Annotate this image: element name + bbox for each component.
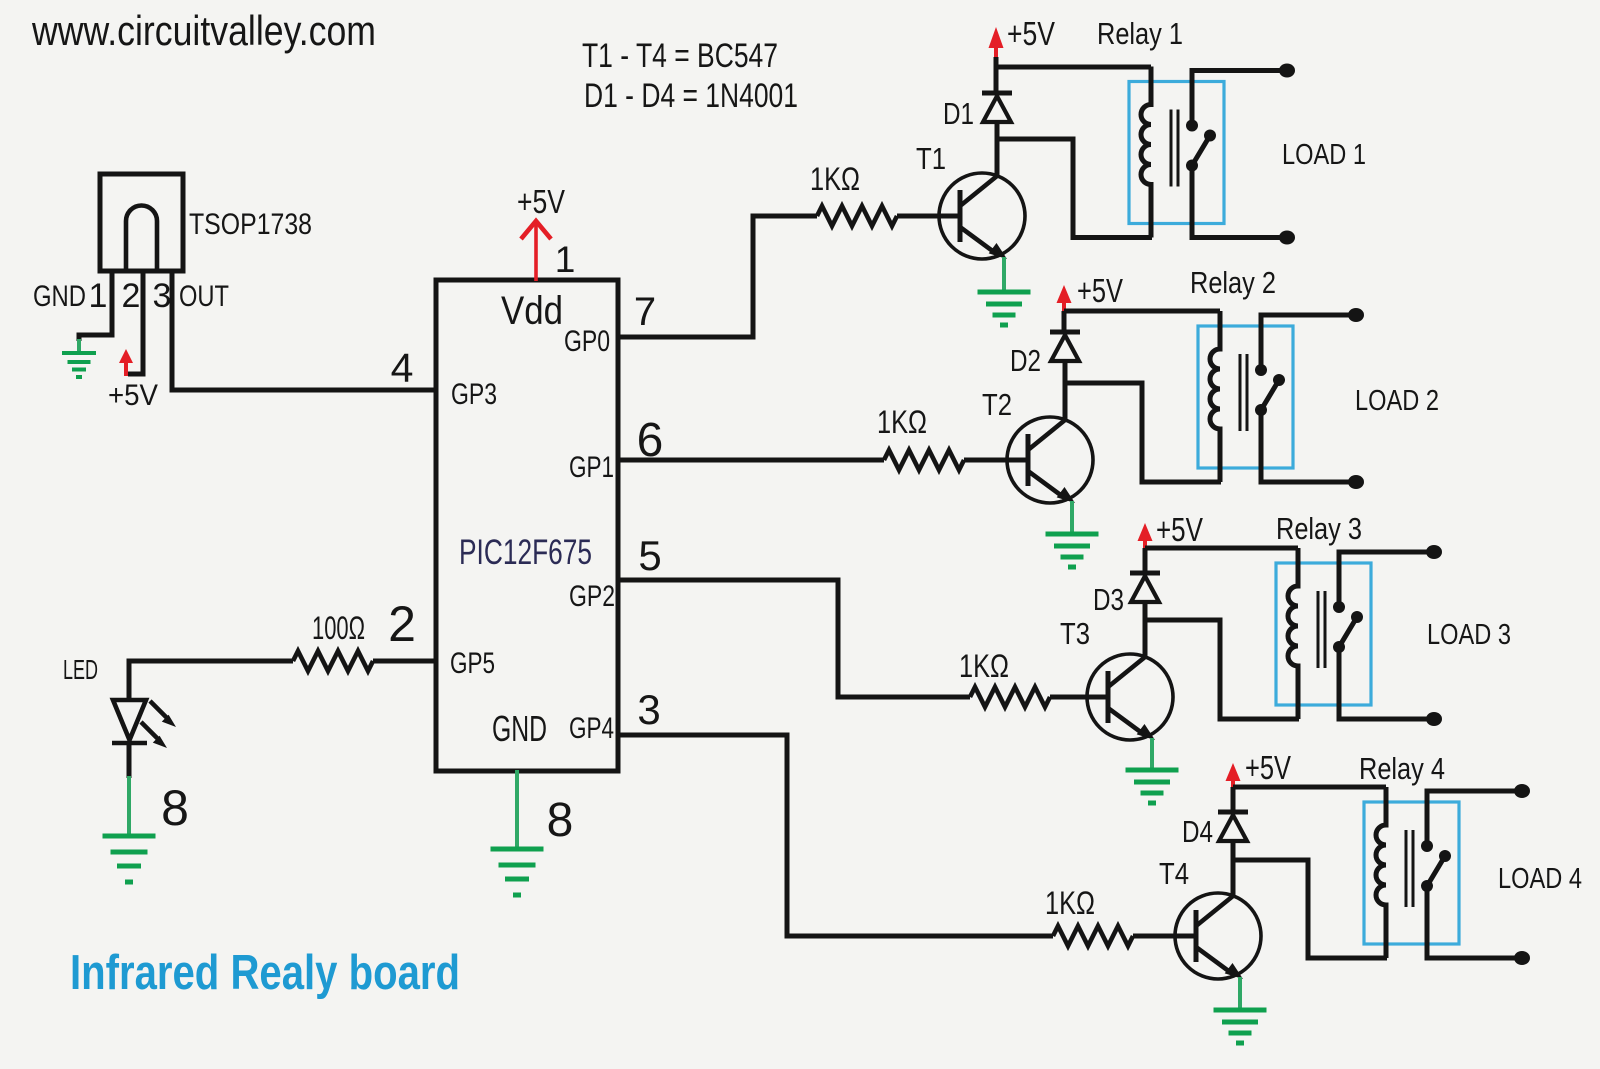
wire collector junction to relay1 coil bottom bbox=[997, 139, 1152, 238]
svg-text:Relay 4: Relay 4 bbox=[1359, 751, 1445, 786]
svg-text:Relay 1: Relay 1 bbox=[1097, 16, 1183, 51]
svg-text:Vdd: Vdd bbox=[501, 289, 563, 333]
svg-text:+5V: +5V bbox=[1007, 15, 1055, 52]
wire GP4 pin3 to resistor bbox=[618, 735, 1053, 936]
svg-text:+5V: +5V bbox=[1156, 511, 1203, 548]
relay Relay4 bbox=[1364, 784, 1530, 965]
wire D1 anode to T1 collector bbox=[995, 123, 1000, 177]
wire +5V to D3 cathode bbox=[1143, 548, 1148, 571]
svg-text:www.circuitvalley.com: www.circuitvalley.com bbox=[31, 7, 376, 54]
wire LED cathode black bbox=[127, 744, 132, 778]
ground T4 bbox=[1214, 1010, 1267, 1043]
svg-text:Relay 2: Relay 2 bbox=[1190, 265, 1276, 300]
diode D4 bbox=[1218, 812, 1248, 841]
LED light arrow 1 bbox=[150, 701, 176, 727]
resistor 1K R3 bbox=[970, 687, 1050, 707]
svg-text:+5V: +5V bbox=[517, 183, 565, 220]
svg-text:+5V: +5V bbox=[1245, 749, 1291, 786]
svg-text:1: 1 bbox=[555, 239, 576, 280]
svg-text:LOAD 4: LOAD 4 bbox=[1498, 863, 1582, 895]
wire resistor to T4 base bbox=[1133, 934, 1188, 939]
relay Relay3 bbox=[1276, 545, 1442, 726]
wire T1 emitter green bbox=[1002, 257, 1006, 290]
svg-text:D1: D1 bbox=[943, 96, 974, 131]
svg-text:2: 2 bbox=[388, 596, 416, 652]
resistor 100ohm bbox=[293, 651, 373, 671]
svg-text:T1 - T4 = BC547: T1 - T4 = BC547 bbox=[582, 37, 778, 75]
svg-text:100Ω: 100Ω bbox=[312, 610, 365, 646]
transistor T1 bbox=[938, 173, 1025, 259]
wire D3 anode to T3 collector bbox=[1143, 603, 1148, 658]
ground T3 bbox=[1126, 770, 1179, 803]
diode D1 bbox=[982, 93, 1012, 122]
transistor T2 bbox=[1006, 417, 1093, 503]
ground T2 bbox=[1046, 534, 1099, 567]
wire LED cathode green bbox=[127, 776, 131, 836]
svg-text:D4: D4 bbox=[1182, 814, 1213, 849]
wire +5V supply to relay2 coil bbox=[1064, 309, 1220, 314]
wire resistor to LED bbox=[129, 661, 293, 699]
IR receiver lens dome bbox=[126, 206, 157, 270]
transistor T4 bbox=[1174, 893, 1261, 979]
LED triangle bbox=[113, 700, 146, 740]
wire T3 emitter green bbox=[1150, 738, 1154, 768]
svg-text:7: 7 bbox=[634, 290, 656, 334]
svg-text:1KΩ: 1KΩ bbox=[959, 648, 1009, 684]
svg-text:T4: T4 bbox=[1159, 856, 1189, 891]
svg-text:8: 8 bbox=[161, 780, 189, 836]
wire +5V supply to relay3 coil bbox=[1145, 546, 1298, 551]
svg-text:GP3: GP3 bbox=[451, 378, 497, 411]
svg-text:GND: GND bbox=[492, 708, 547, 749]
svg-text:GP0: GP0 bbox=[564, 325, 610, 358]
wire +5V supply to relay1 coil bbox=[996, 65, 1151, 70]
svg-text:GND: GND bbox=[33, 280, 86, 313]
wire T2 emitter green bbox=[1070, 501, 1074, 532]
resistor 1K R1 bbox=[817, 206, 897, 226]
wire +5V supply to relay4 coil bbox=[1233, 785, 1386, 790]
wire D4 anode to T4 collector bbox=[1231, 842, 1236, 897]
svg-text:T1: T1 bbox=[916, 141, 946, 176]
svg-text:D1 - D4 = 1N4001: D1 - D4 = 1N4001 bbox=[584, 77, 798, 115]
svg-text:T2: T2 bbox=[982, 387, 1012, 422]
transistor T3 bbox=[1086, 654, 1173, 740]
svg-text:1KΩ: 1KΩ bbox=[810, 161, 860, 197]
power +5V arrow stage2 bbox=[1057, 285, 1072, 311]
svg-text:2: 2 bbox=[122, 277, 141, 315]
wire TSOP pin3 OUT to GP3 bbox=[172, 269, 436, 390]
svg-text:1KΩ: 1KΩ bbox=[1045, 885, 1095, 921]
svg-text:LED: LED bbox=[63, 654, 98, 685]
svg-text:PIC12F675: PIC12F675 bbox=[459, 533, 592, 572]
svg-text:LOAD 3: LOAD 3 bbox=[1427, 619, 1511, 651]
power Vdd +5V arrow bbox=[521, 221, 551, 281]
power +5V arrow stage1 bbox=[989, 27, 1004, 58]
power +5V arrow stage4 bbox=[1226, 763, 1241, 789]
ground PIC pin8 bbox=[491, 849, 544, 895]
svg-text:5: 5 bbox=[638, 532, 661, 579]
LED light arrow 2 bbox=[141, 722, 167, 748]
wire resistor to T2 base bbox=[964, 458, 1020, 463]
wire collector junction to relay4 coil bottom bbox=[1233, 860, 1387, 958]
svg-text:D3: D3 bbox=[1093, 582, 1124, 617]
svg-text:LOAD 2: LOAD 2 bbox=[1355, 385, 1439, 417]
wire D2 anode to T2 collector bbox=[1063, 362, 1068, 421]
wire collector junction to relay2 coil bottom bbox=[1065, 383, 1221, 482]
wire TSOP pin2 to +5V bbox=[128, 269, 143, 374]
relay Relay2 bbox=[1198, 308, 1364, 489]
svg-text:GP4: GP4 bbox=[569, 712, 614, 745]
ground T1 bbox=[978, 292, 1031, 325]
svg-text:3: 3 bbox=[637, 686, 660, 733]
svg-text:GP1: GP1 bbox=[569, 451, 614, 484]
resistor 1K R2 bbox=[884, 450, 964, 470]
IC PIC12F675 body bbox=[436, 280, 618, 771]
svg-text:+5V: +5V bbox=[1077, 272, 1123, 309]
wire +5V to D1 cathode bbox=[994, 57, 999, 91]
svg-text:3: 3 bbox=[153, 277, 172, 315]
wire collector junction to relay3 coil bottom bbox=[1145, 620, 1299, 719]
relay Relay1 bbox=[1129, 64, 1295, 245]
wire GP1 pin6 to resistor bbox=[618, 458, 884, 463]
svg-text:GP5: GP5 bbox=[450, 647, 495, 680]
wire +5V to D4 cathode bbox=[1231, 787, 1236, 810]
svg-text:Relay 3: Relay 3 bbox=[1276, 511, 1362, 546]
ground LED bbox=[103, 836, 156, 882]
svg-text:LOAD 1: LOAD 1 bbox=[1282, 139, 1366, 171]
svg-text:GP2: GP2 bbox=[569, 580, 615, 613]
wire PIC GND green bbox=[515, 770, 519, 847]
wire TSOP pin1 to ground bbox=[79, 269, 112, 341]
svg-text:Infrared Realy board: Infrared Realy board bbox=[70, 946, 460, 1000]
wire GP2 pin5 to resistor bbox=[618, 580, 970, 697]
wire GP5 to resistor bbox=[373, 659, 436, 664]
svg-text:4: 4 bbox=[391, 345, 414, 391]
wire +5V to D2 cathode bbox=[1062, 311, 1067, 330]
resistor 1K R4 bbox=[1053, 926, 1133, 946]
LED cathode bar bbox=[112, 741, 147, 746]
IR receiver TSOP1738 body bbox=[100, 174, 183, 271]
svg-text:8: 8 bbox=[547, 794, 574, 847]
power +5V arrow TSOP bbox=[119, 349, 133, 376]
svg-text:T3: T3 bbox=[1060, 616, 1090, 651]
wire resistor to T3 base bbox=[1050, 695, 1100, 700]
svg-text:+5V: +5V bbox=[108, 379, 158, 412]
wire resistor to T1 base bbox=[897, 214, 952, 219]
wire green stub to ground bbox=[77, 339, 81, 351]
svg-text:D2: D2 bbox=[1010, 343, 1041, 378]
svg-text:1KΩ: 1KΩ bbox=[877, 404, 927, 440]
diode D3 bbox=[1130, 573, 1160, 602]
svg-text:TSOP1738: TSOP1738 bbox=[189, 208, 312, 241]
ground TSOP bbox=[62, 353, 96, 377]
diode D2 bbox=[1050, 332, 1080, 361]
svg-text:1: 1 bbox=[89, 277, 108, 315]
wire GP0 pin7 to resistor bbox=[618, 216, 817, 337]
svg-text:OUT: OUT bbox=[179, 280, 229, 313]
power +5V arrow stage3 bbox=[1138, 523, 1153, 549]
wire T4 emitter green bbox=[1238, 977, 1242, 1008]
